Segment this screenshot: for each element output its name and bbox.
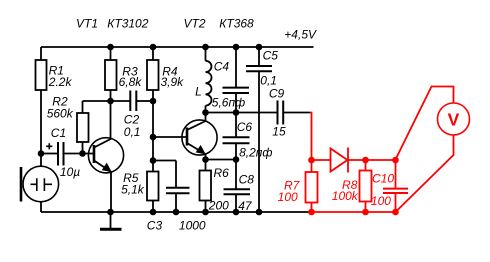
svg-text:C9: C9 [269, 87, 285, 101]
resistor R1 [36, 60, 47, 90]
svg-text:100k: 100k [332, 189, 359, 203]
voltmeter PV1 [438, 103, 470, 135]
capacitor C6 [235, 113, 237, 137]
wire R1 bottom to mic [40, 90, 42, 167]
resistor R4 [147, 60, 159, 90]
svg-text:C5: C5 [263, 48, 279, 62]
inductor L [205, 47, 207, 61]
wire mic bottom stub [40, 202, 42, 213]
svg-text:КТ368: КТ368 [219, 17, 254, 31]
red detector subcircuit [306, 87, 470, 213]
wire red bottom rail [312, 211, 396, 213]
resistor R8 [365, 160, 367, 171]
svg-text:100: 100 [371, 194, 391, 208]
microphone BM1 [23, 166, 59, 202]
svg-text:6,8k: 6,8k [119, 75, 143, 89]
svg-text:R6: R6 [214, 166, 230, 180]
svg-text:+4,5V: +4,5V [284, 28, 317, 42]
svg-text:L: L [195, 84, 202, 98]
capacitor C10 [395, 160, 397, 188]
wire probe 1 to voltmeter [396, 87, 454, 160]
svg-text:8,2пф: 8,2пф [239, 145, 272, 159]
junction dots red [308, 157, 399, 216]
svg-text:100: 100 [278, 190, 298, 204]
junction dots black [38, 44, 263, 216]
svg-text:47: 47 [238, 199, 253, 213]
resistor R7 [311, 160, 313, 172]
resistor R5 [152, 137, 154, 172]
svg-text:VT2: VT2 [184, 17, 206, 31]
svg-text:5,6пф: 5,6пф [212, 96, 245, 110]
wire mid rail collector node [206, 112, 278, 114]
svg-text:C3: C3 [147, 219, 163, 233]
svg-text:3,9k: 3,9k [161, 75, 185, 89]
capacitor C9 [278, 101, 284, 125]
svg-text:15: 15 [272, 125, 286, 139]
capacitor C4 [235, 47, 237, 87]
svg-text:10µ: 10µ [60, 165, 80, 179]
diode VD1 [331, 149, 348, 172]
wire left column R1 top [40, 47, 42, 60]
resistor R6 [205, 160, 207, 171]
wire top rail +4,5V [41, 46, 314, 48]
transistor VT2 [182, 120, 217, 155]
transistor VT1 [88, 138, 123, 173]
capacitor C2 [111, 100, 130, 102]
capacitor C8 [235, 160, 237, 190]
wire bottom rail (black) [41, 211, 312, 213]
ground [110, 212, 112, 228]
resistor R2 [77, 113, 89, 142]
wire red riser from C9 [310, 113, 312, 161]
capacitor C1 [41, 153, 57, 155]
wire VT2 emitter to C8 [206, 159, 237, 161]
svg-text:C6: C6 [237, 120, 253, 134]
svg-text:2.2k: 2.2k [48, 75, 73, 89]
capacitor C5 [258, 47, 260, 66]
svg-text:5,1k: 5,1k [121, 183, 145, 197]
svg-text:1000: 1000 [179, 219, 206, 233]
svg-text:VT1: VT1 [76, 17, 98, 31]
svg-text:C1: C1 [51, 126, 66, 140]
svg-text:C4: C4 [214, 60, 230, 74]
svg-text:200: 200 [208, 198, 229, 212]
svg-text:C8: C8 [239, 173, 255, 187]
resistor R3 [105, 60, 117, 90]
capacitor C3 [153, 161, 176, 188]
svg-text:560k: 560k [47, 107, 74, 121]
svg-text:V: V [448, 110, 460, 130]
wire VT2 base [153, 136, 187, 138]
wire red node to diode [312, 159, 331, 161]
svg-text:КТ3102: КТ3102 [107, 17, 148, 31]
svg-text:C10: C10 [372, 171, 394, 185]
wire probe 2 to voltmeter [396, 135, 454, 212]
svg-text:0,1: 0,1 [124, 125, 141, 139]
